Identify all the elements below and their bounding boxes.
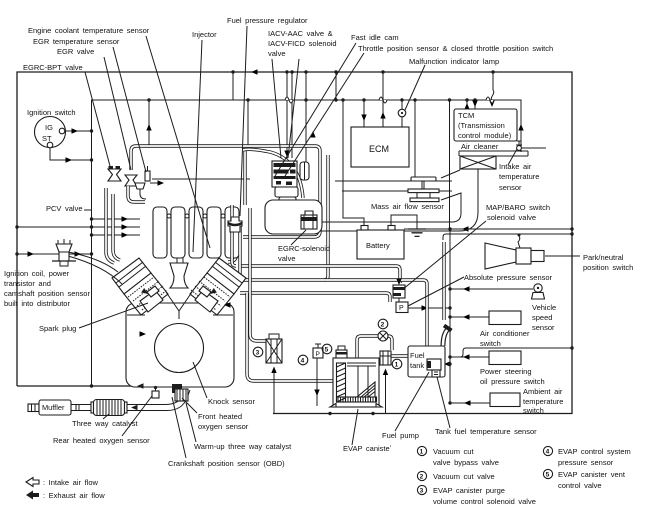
exhaust flow arrow on pipe (131, 405, 138, 410)
wire drop x233 (231, 70, 234, 100)
wire EGR to fuel rail y179 (152, 178, 250, 180)
svg-text:1: 1 (420, 449, 424, 456)
EGRC solenoid valve component (301, 211, 317, 229)
leader EGR valve (104, 57, 131, 170)
pipe fuel filler neck (443, 326, 452, 347)
wire bottom-left border segment (17, 385, 169, 387)
wire TCM drop x467 (464, 98, 469, 109)
engine right piston (195, 290, 218, 312)
wire battery feed from bus (341, 98, 364, 226)
vehicle speed sensor (532, 284, 545, 299)
pipe engine right down C purge (250, 208, 266, 341)
svg-text:Ambient air: Ambient air (523, 387, 563, 396)
svg-text:EGR valve: EGR valve (57, 47, 94, 56)
spark plug wire 2 (68, 256, 122, 284)
tank fuel temperature sensor component (432, 370, 440, 377)
leader crankshaft position sensor (172, 397, 186, 458)
leader knock sensor (193, 362, 207, 398)
wire AC switch y317 (448, 314, 489, 319)
pipe plenum left elbow (131, 146, 136, 170)
svg-text:transistor and: transistor and (4, 279, 51, 288)
MAP BARO switch solenoid valve component (393, 279, 405, 299)
three way catalyst ribbed (91, 400, 127, 416)
fuel pressure regulator component (228, 217, 242, 232)
exhaust flow arrow on obd line (137, 383, 144, 388)
pipe canister to vacuum cut valve (357, 336, 378, 358)
wire vent valve down (314, 358, 319, 406)
svg-text:: Exhaust air flow: : Exhaust air flow (43, 491, 105, 500)
svg-text:Knock sensor: Knock sensor (208, 397, 255, 406)
power steering switch box (489, 351, 521, 365)
pipe intake runner tall (243, 150, 246, 205)
leader absolute pressure sensor (408, 277, 464, 306)
svg-text:IACV-FICD solenoid: IACV-FICD solenoid (268, 39, 337, 48)
svg-text:speed: speed (532, 313, 552, 322)
svg-text:Power steering: Power steering (480, 367, 532, 376)
leader EGR temperature sensor (113, 47, 146, 172)
svg-text:built into distributor: built into distributor (4, 299, 70, 308)
leader three way catalyst (103, 414, 109, 419)
wire drop x248 fuel rail (246, 98, 249, 146)
vacuum cut valve component 2 (378, 331, 388, 341)
wire power steering bus y348 (450, 346, 574, 357)
IACV-AAC and FICD component (272, 161, 297, 187)
leader injector (193, 40, 202, 252)
pipe engine right down A (232, 205, 236, 266)
svg-text:Injector: Injector (192, 30, 217, 39)
wire inner-left vertical (91, 160, 93, 386)
leader spark plug (79, 303, 148, 328)
pipe engine down to canister (247, 293, 333, 381)
wire purge valve to bottom bus (271, 367, 276, 414)
svg-text:Engine coolant temperature sen: Engine coolant temperature sensor (28, 26, 150, 35)
wire ECM input x364 (361, 98, 366, 127)
legend item 2 vacuum cut valve (417, 471, 494, 481)
pipe EGR down left B (113, 194, 120, 260)
engine crankcase circle (155, 324, 204, 373)
svg-text:: Intake air flow: : Intake air flow (43, 478, 99, 487)
svg-text:Ignition switch: Ignition switch (27, 108, 76, 117)
EVAP pressure sensor component 4 (313, 344, 323, 358)
exhaust pipe catalyst to engine (127, 390, 190, 411)
legend item 3 EVAP canister purge volume control solenoid valve (417, 485, 535, 506)
spark plug right (199, 286, 217, 297)
pipe right bank elbow (228, 252, 237, 262)
intake air temperature sensor symbol (516, 141, 546, 150)
svg-text:Battery: Battery (366, 241, 390, 250)
wire park neutral pipe y234 (443, 232, 574, 240)
wire pigtail hop x490 (486, 97, 494, 103)
leader tank fuel temperature sensor (437, 377, 450, 428)
svg-text:Fuel: Fuel (410, 351, 425, 360)
svg-text:control module): control module) (458, 131, 512, 140)
svg-text:P: P (316, 351, 320, 358)
svg-text:temperature: temperature (499, 172, 539, 181)
intake manifold runner tube 5 (225, 207, 239, 258)
svg-text:2: 2 (381, 322, 385, 329)
pipe filler vertical (442, 242, 445, 320)
marker 4 circle (298, 355, 308, 365)
wire ignition ST down and right to bus (50, 147, 93, 163)
leader front heated oxygen sensor (182, 398, 197, 413)
wire drop x149 to manifold (146, 98, 151, 147)
EGR temperature sensor component (145, 166, 150, 181)
fuel tank (408, 346, 445, 377)
wire fuel tank sensor y364 (441, 361, 452, 366)
distributor (52, 239, 76, 266)
legend exhaust air flow arrow (26, 491, 105, 501)
svg-text:EVAP canister vent: EVAP canister vent (558, 470, 626, 479)
svg-text:Air conditioner: Air conditioner (480, 329, 530, 338)
svg-text:Vacuum cut valve: Vacuum cut valve (433, 472, 495, 481)
wire malfunction leader (405, 65, 425, 110)
surge tank corner (265, 200, 322, 234)
svg-text:Fast idle cam: Fast idle cam (351, 33, 399, 42)
EGR valve component (125, 175, 137, 186)
leader intake air temperature sensor (508, 149, 517, 165)
spark plug left (141, 286, 159, 297)
legend item 5 EVAP canister vent control valve (543, 469, 625, 490)
engine right valve cover (207, 258, 246, 294)
engine deck lines (127, 314, 233, 316)
pipe plenum rail y146 to EGRC solenoid (136, 146, 320, 237)
svg-text:2: 2 (420, 474, 424, 481)
svg-text:TCM: TCM (458, 111, 474, 120)
throttle chamber (275, 187, 298, 206)
pipe EGR down left A (106, 188, 114, 263)
svg-text:3: 3 (256, 350, 260, 357)
wire TCM right x521 up arrow (518, 124, 523, 131)
svg-text:5: 5 (546, 472, 550, 479)
pipe vacuum H2 to fuel tank (240, 280, 427, 346)
wire vehicle speed sensor y289 (448, 286, 533, 291)
wire ignition IG to bus (63, 128, 93, 133)
svg-text:oil pressure switch: oil pressure switch (480, 377, 545, 386)
leader IACV-AAC valve (272, 59, 281, 158)
svg-text:EVAP canisteʼ: EVAP canisteʼ (343, 444, 392, 453)
wire top-border left arrow (251, 69, 258, 74)
intake manifold runner tube 3 (189, 207, 203, 258)
leader MAP BARO (402, 221, 486, 290)
svg-text:IG: IG (45, 123, 53, 132)
air cleaner box (459, 151, 528, 169)
legend item 1 vacuum cut valve bypass valve (417, 446, 499, 467)
svg-text:PCV valve: PCV valve (46, 204, 83, 213)
wire engine harness y227 (15, 224, 140, 229)
muffler (39, 400, 71, 415)
wire outer border top left right (17, 72, 572, 414)
ignition switch (35, 117, 66, 148)
wire MAF drop x415 (413, 98, 416, 178)
svg-text:P: P (399, 305, 404, 312)
marker 5 circle (322, 344, 332, 354)
engine block outline (126, 303, 234, 387)
wire right vertical x450 (449, 229, 451, 403)
wire battery to ground (391, 215, 417, 229)
absolute pressure sensor component (396, 298, 408, 313)
svg-text:3: 3 (420, 488, 424, 495)
manifold bolt circles (167, 214, 225, 218)
leader park neutral (545, 255, 580, 257)
intake flow arrow (310, 131, 315, 138)
EGRC-BPT valve component (108, 166, 121, 181)
wire distributor feed y254 (15, 251, 93, 256)
svg-text:IACV-AAC valve &: IACV-AAC valve & (268, 29, 333, 38)
svg-text:Air cleaner: Air cleaner (461, 142, 499, 151)
wire ECM output x383 (380, 70, 385, 127)
svg-text:Muffler: Muffler (42, 403, 65, 412)
engine airflow arrow right (140, 331, 147, 336)
fuel pump component (427, 359, 441, 370)
EVAP canister (330, 358, 382, 407)
wire bottom bus y415 dots (328, 412, 374, 415)
ground symbol (408, 229, 426, 236)
wire engine harness y235 (90, 232, 140, 237)
mass air flow sensor (408, 177, 439, 202)
pipe bypass valve to tank (390, 354, 408, 357)
svg-text:4: 4 (546, 449, 550, 456)
svg-text:Tank fuel temperature sensor: Tank fuel temperature sensor (435, 427, 537, 436)
TCM box (454, 109, 517, 141)
svg-text:temperature: temperature (523, 397, 563, 406)
vacuum cut bypass valve component 1 (380, 351, 391, 365)
svg-text:Malfunction indicator lamp: Malfunction indicator lamp (409, 57, 499, 66)
wire engine harness y219 (90, 216, 140, 221)
intake manifold runner tube 2 (171, 207, 185, 258)
wire power steering y357 (448, 354, 489, 359)
engine left piston (140, 290, 163, 312)
leader EVAP canister (352, 409, 358, 445)
vent control valve component 5 (336, 346, 347, 360)
rear heated oxygen sensor component (152, 386, 159, 398)
svg-text:Throttle position sensor & clo: Throttle position sensor & closed thrott… (358, 44, 553, 53)
wire drop x336 (334, 70, 337, 101)
svg-text:valve bypass valve: valve bypass valve (433, 458, 499, 467)
svg-text:EVAP control system: EVAP control system (558, 447, 631, 456)
svg-text:tank: tank (410, 361, 424, 370)
legend intake air flow arrow (26, 478, 99, 488)
svg-text:ST: ST (42, 134, 52, 143)
svg-text:Front heated: Front heated (198, 412, 242, 421)
svg-text:sensor: sensor (499, 183, 522, 192)
svg-text:5: 5 (325, 347, 329, 354)
svg-text:Warm-up three way catalyst: Warm-up three way catalyst (194, 442, 292, 451)
wire malfunction lamp to TCM wavy (489, 70, 494, 107)
svg-text:Absolute pressure sensor: Absolute pressure sensor (464, 273, 553, 282)
svg-text:MAP/BARO switch: MAP/BARO switch (486, 203, 550, 212)
lamp symbol above ECM (398, 98, 406, 127)
wire ambient y403 (448, 400, 490, 405)
leader IACV-FICD (288, 59, 299, 158)
svg-text:switch: switch (480, 339, 501, 348)
svg-text:Three way catalyst: Three way catalyst (72, 419, 138, 428)
svg-text:4: 4 (301, 358, 305, 365)
svg-text:pressure sensor: pressure sensor (558, 458, 614, 467)
svg-text:Rear heated oxygen sensor: Rear heated oxygen sensor (53, 436, 150, 445)
leader rear heated oxygen sensor (122, 396, 152, 436)
svg-text:camshaft position sensor: camshaft position sensor (4, 289, 90, 298)
svg-text:Park/neutral: Park/neutral (583, 253, 624, 262)
engine left valve cover (112, 258, 151, 294)
spark plug wire 1 (68, 252, 118, 272)
pipe vacuum cut valve to bypass (388, 336, 392, 350)
svg-text:EGRC-solenoid: EGRC-solenoid (278, 244, 330, 253)
purge solenoid valve component 3 (266, 334, 282, 363)
svg-text:ECM: ECM (369, 144, 389, 154)
marker 1 circle (392, 359, 402, 369)
svg-text:sensor: sensor (532, 323, 555, 332)
leader warm-up three way catalyst (186, 403, 196, 442)
svg-text:solenoid valve: solenoid valve (487, 213, 536, 222)
wire right harness x449.5 (448, 98, 451, 229)
leader fast idle cam (275, 43, 356, 176)
ambient air switch box (490, 393, 520, 407)
wire drop x292 IACV (290, 70, 293, 158)
svg-text:Vacuum cut: Vacuum cut (433, 447, 474, 456)
engine intake throat (170, 258, 188, 288)
svg-text:valve: valve (278, 254, 296, 263)
wire drop x287 IACV (284, 70, 289, 160)
svg-text:Spark plug: Spark plug (39, 324, 76, 333)
marker 2 circle (378, 319, 388, 329)
wire pigtail hop x289 (285, 97, 293, 103)
svg-text:switch: switch (523, 406, 544, 415)
pipe throttle snake to manifold (243, 149, 303, 198)
leader fuel pressure regulator (240, 26, 247, 216)
legend item 4 EVAP control system pressure sensor (543, 446, 630, 467)
wire drop x306 throttle (304, 70, 307, 162)
svg-text:Fuel pressure regulator: Fuel pressure regulator (227, 16, 308, 25)
pipe vacuum H1 to MAP BARO (240, 266, 400, 283)
PCV valve component (135, 183, 146, 199)
park neutral transmission (485, 234, 544, 270)
ECM box (351, 127, 409, 167)
leader engine coolant temperature sensor (146, 36, 210, 248)
svg-text:position switch: position switch (583, 263, 633, 272)
svg-text:oxygen sensor: oxygen sensor (198, 422, 249, 431)
wire pigtail hop x383 (379, 97, 387, 103)
pipe throttle down right (324, 155, 328, 280)
pipe engine right down B (240, 225, 244, 280)
engine V notch (166, 292, 192, 319)
svg-text:EGRC-BPT valve: EGRC-BPT valve (23, 63, 83, 72)
pipe vacuum H3 to pressure sensor (240, 293, 390, 302)
arrow near EGR to right (150, 180, 164, 185)
intake manifold runner tube 1 (153, 207, 167, 258)
engine left cylinder bank hatched (124, 273, 168, 315)
marker 3 circle (253, 347, 263, 357)
svg-text:valve: valve (268, 49, 286, 58)
intake manifold runner tube 4 (207, 207, 221, 258)
svg-text:EVAP canister purge: EVAP canister purge (433, 486, 505, 495)
wire main right bus y229 (404, 226, 574, 231)
svg-text:control valve: control valve (558, 481, 602, 490)
exhaust pipe muffler to catalyst (71, 405, 93, 411)
wire ecm to duct y184 (335, 180, 452, 182)
pipe air duct from air cleaner to throttle runner (317, 169, 478, 231)
leader throttle position sensor (285, 53, 364, 176)
engine right cylinder bank hatched (190, 273, 234, 315)
leader EGRC solenoid valve (291, 230, 306, 245)
svg-text:1: 1 (395, 362, 399, 369)
wire TCM drop x475 (472, 98, 477, 109)
leader EGRC-BPT valve (85, 72, 110, 166)
svg-text:(Transmission: (Transmission (458, 121, 505, 130)
wire ecm to duct y191 (342, 190, 452, 192)
svg-text:Vehicle: Vehicle (532, 303, 556, 312)
fast idle cam component (300, 162, 309, 180)
battery (357, 226, 404, 260)
warm-up three way catalyst component (175, 389, 188, 401)
svg-text:Crankshaft position sensor (OB: Crankshaft position sensor (OBD) (168, 459, 285, 468)
svg-text:Mass air flow sensor: Mass air flow sensor (371, 202, 444, 211)
svg-text:Fuel pump: Fuel pump (382, 431, 419, 440)
leader fuel pump (395, 372, 429, 431)
wire bypass valve to bottom (383, 369, 388, 414)
pipe EGR valve to manifold (128, 186, 145, 202)
engine airflow arrow left (224, 302, 231, 307)
wire inner bus line (92, 100, 522, 160)
wire absolute pressure sensor y308 (408, 305, 452, 310)
svg-text:volume control solenoid valve: volume control solenoid valve (433, 497, 536, 506)
svg-text:Ignition coil, power: Ignition coil, power (4, 269, 70, 278)
air conditioner switch box (489, 311, 521, 325)
svg-text:EGR temperature sensor: EGR temperature sensor (33, 37, 120, 46)
muffler inlet stub (28, 404, 39, 412)
svg-text:Intake air: Intake air (499, 162, 532, 171)
knock sensor component (172, 384, 182, 393)
leader PCV valve (84, 209, 92, 211)
